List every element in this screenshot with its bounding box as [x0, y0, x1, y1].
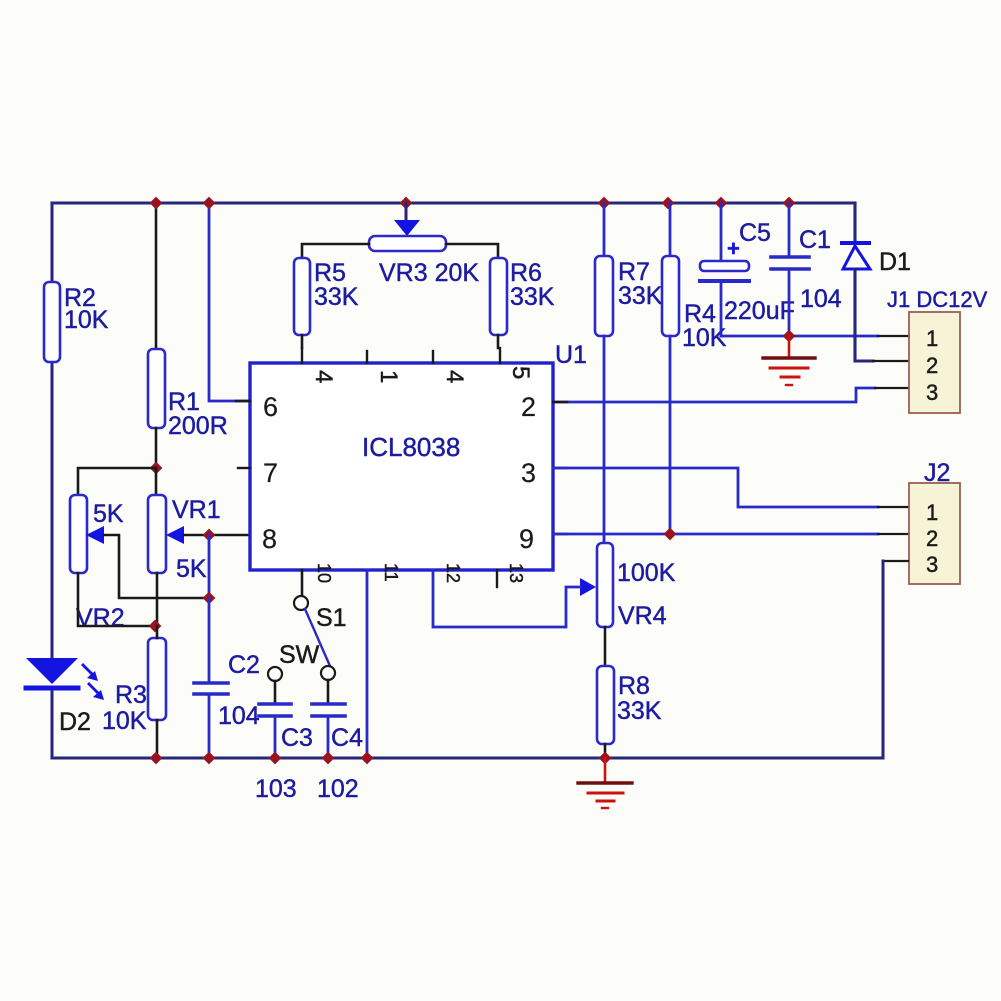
svg-text:D2: D2: [59, 708, 91, 736]
pin 2 stub: [553, 401, 567, 403]
svg-text:6: 6: [263, 392, 278, 422]
wire ground bus to J1 pin1: [721, 335, 878, 338]
node junction rail VR3: [400, 197, 413, 210]
resistor R8: [597, 666, 662, 744]
svg-text:100K: 100K: [617, 559, 676, 587]
node junction R8 ground: [599, 752, 612, 765]
svg-text:2: 2: [521, 392, 536, 422]
svg-text:R8: R8: [618, 672, 650, 700]
wire VR1 wiper to pin 8: [184, 534, 250, 537]
svg-text:R3: R3: [115, 681, 147, 709]
resistor R1: [148, 349, 228, 440]
node junction VR bottoms: [149, 620, 162, 633]
svg-text:4: 4: [310, 370, 337, 383]
wire VR3 left to R5: [302, 244, 369, 258]
svg-text:220uF: 220uF: [724, 297, 795, 325]
wire bottom rail: [52, 756, 882, 759]
connector J1: [887, 287, 988, 413]
svg-text:104: 104: [218, 702, 260, 730]
node junction rail R1: [150, 197, 163, 210]
svg-text:3: 3: [926, 380, 938, 405]
wire pin 2 to J1 pin 3: [553, 388, 875, 402]
wire R6 bottom: [497, 335, 500, 348]
capacitor C5: [700, 203, 795, 336]
svg-text:C5: C5: [739, 219, 771, 247]
wire R4 bottom: [669, 336, 672, 534]
svg-text:9: 9: [519, 524, 534, 554]
svg-text:33K: 33K: [617, 697, 662, 725]
wire R3 top: [156, 626, 159, 638]
wire VR3 right to R6: [446, 244, 498, 258]
wire C2 bottom: [208, 695, 211, 758]
node junction pin8 wire: [203, 529, 216, 542]
svg-text:5: 5: [507, 366, 534, 379]
node junction rail R4: [662, 197, 675, 210]
svg-text:1: 1: [926, 326, 938, 351]
wire left rail lower: [51, 689, 54, 758]
wire junction to VR1 top: [155, 468, 158, 495]
svg-text:33K: 33K: [510, 283, 555, 311]
svg-text:VR1: VR1: [172, 496, 221, 524]
potentiometer VR4: [580, 543, 676, 630]
svg-text:11: 11: [381, 563, 401, 582]
pin 6 stub: [236, 400, 250, 402]
connector J2: [909, 459, 960, 584]
svg-text:10: 10: [314, 563, 334, 583]
node junction rail C5: [715, 197, 728, 210]
svg-text:10K: 10K: [102, 707, 147, 735]
svg-text:C4: C4: [331, 724, 363, 752]
node junction rail C2: [203, 752, 216, 765]
node junction rail C4: [322, 752, 335, 765]
node junction wiper/C2: [203, 592, 216, 605]
pin 3 stub: [553, 467, 567, 469]
IC pin 7 stub: [238, 467, 250, 469]
node junction rail C3: [269, 752, 282, 765]
wire left rail upper: [51, 203, 54, 282]
wire VR2 wiper: [104, 535, 209, 598]
wire R7 bottom to VR4: [603, 336, 606, 543]
pin 9 stub: [553, 533, 567, 535]
svg-text:2: 2: [926, 526, 938, 551]
potentiometer VR3: [369, 203, 479, 287]
node junction rail pin6: [203, 197, 216, 210]
wire pin 3 to J2 pin 1: [553, 468, 878, 507]
wire pin8 node down to C2: [208, 535, 211, 598]
svg-text:3: 3: [521, 458, 536, 488]
node junction ground: [783, 330, 796, 343]
node junction rail R7: [598, 197, 611, 210]
wire J2 pin3 to ground rail: [883, 560, 908, 562]
node junction R4/pin9: [664, 528, 677, 541]
IC pin 13 stub: [496, 570, 498, 587]
wire node to C2 top: [208, 598, 211, 682]
svg-text:8: 8: [262, 524, 277, 554]
wire top rail: [52, 201, 855, 204]
capacitor C1: [771, 203, 842, 336]
svg-text:J1 DC12V: J1 DC12V: [887, 287, 988, 312]
LED D2: [26, 658, 104, 736]
wire R1 top: [155, 203, 158, 349]
svg-text:104: 104: [800, 285, 842, 313]
svg-text:10K: 10K: [64, 306, 109, 334]
wire pin 9 to J2 pin 2: [553, 533, 878, 536]
potentiometer VR2: [70, 495, 125, 632]
svg-text:3: 3: [926, 552, 938, 577]
svg-text:5K: 5K: [93, 500, 124, 528]
svg-text:33K: 33K: [314, 283, 359, 311]
wire pin 11 to ground rail: [366, 570, 369, 758]
svg-text:D1: D1: [879, 248, 911, 276]
IC U1 box: [250, 363, 553, 570]
svg-text:C3: C3: [281, 724, 313, 752]
switch S1: [279, 570, 347, 669]
capacitor C2: [194, 651, 260, 730]
svg-text:C1: C1: [799, 226, 831, 254]
svg-text:12: 12: [443, 563, 463, 583]
IC top pin stubs: [301, 348, 303, 363]
svg-text:SW: SW: [279, 641, 320, 669]
ground symbol 2: [578, 758, 632, 808]
capacitor C3: [255, 667, 313, 803]
svg-text:33K: 33K: [618, 282, 663, 310]
diode D1: [842, 203, 911, 361]
wire R5 bottom: [301, 335, 304, 348]
resistor R2: [44, 282, 109, 362]
svg-text:4: 4: [441, 370, 468, 383]
wire pin 6 feed: [209, 203, 250, 401]
wire R8 bottom: [604, 744, 607, 758]
resistor R4: [662, 256, 727, 352]
wire R4 top: [669, 203, 672, 256]
node junction rail C1: [783, 197, 796, 210]
svg-text:U1: U1: [555, 341, 587, 369]
svg-text:103: 103: [255, 775, 297, 803]
svg-text:2: 2: [926, 353, 938, 378]
potentiometer VR1: [148, 495, 221, 583]
wire left rail middle: [51, 362, 54, 659]
resistor R6: [490, 258, 555, 335]
wire pin 12 to VR4 wiper: [433, 570, 580, 627]
resistor R5: [294, 258, 359, 335]
wire junction to VR2 top: [78, 468, 156, 495]
svg-text:C2: C2: [228, 651, 260, 679]
svg-text:13: 13: [506, 563, 526, 583]
svg-text:1: 1: [926, 500, 938, 525]
wire VR1 bottom: [156, 573, 159, 626]
svg-text:200R: 200R: [168, 412, 228, 440]
svg-text:VR3 20K: VR3 20K: [379, 259, 479, 287]
svg-text:ICL8038: ICL8038: [362, 432, 460, 462]
svg-text:+: +: [727, 236, 740, 261]
svg-text:VR4: VR4: [618, 602, 667, 630]
svg-text:1: 1: [375, 370, 402, 383]
node junction rail R3: [150, 752, 163, 765]
resistor R3: [102, 638, 166, 735]
capacitor C4: [312, 666, 363, 803]
wire VR4 bottom: [604, 627, 607, 666]
wire R7 top: [603, 203, 606, 256]
wire R3 bottom: [156, 720, 159, 758]
node junction rail pin11: [361, 752, 374, 765]
svg-text:J2: J2: [924, 459, 950, 487]
node junction R1 bottom: [150, 462, 163, 475]
wire R1 bottom: [155, 428, 158, 468]
svg-text:5K: 5K: [176, 555, 207, 583]
resistor R7: [595, 256, 663, 336]
svg-text:102: 102: [317, 775, 359, 803]
ground symbol 1: [763, 336, 815, 385]
svg-text:VR2: VR2: [76, 604, 125, 632]
svg-text:7: 7: [263, 458, 278, 488]
svg-text:S1: S1: [316, 604, 347, 632]
wire VR2 bottom: [78, 573, 155, 626]
